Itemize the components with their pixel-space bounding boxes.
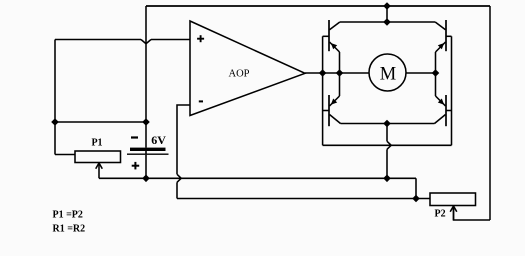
- op-amp minus input sign: [199, 100, 203, 102]
- wire battery plus run to bridge bottom: [146, 177, 416, 179]
- wire right base rail: [451, 36, 453, 145]
- wire motor right to right leg: [406, 72, 436, 74]
- battery B1 top plate (thick): [130, 148, 166, 151]
- wire feed into bridge: [386, 6, 388, 22]
- node dot right link: [142, 118, 150, 126]
- transistor Q4 (lower right): [435, 73, 452, 126]
- svg-text:P1 =P2: P1 =P2: [53, 210, 83, 221]
- battery B1 bottom plate (thin): [127, 153, 169, 155]
- node dot top feed: [383, 2, 391, 10]
- wire bridge bottom down to battery plus: [386, 149, 388, 178]
- svg-text:P1: P1: [91, 138, 102, 149]
- svg-text:AOP: AOP: [228, 69, 249, 80]
- wire bottom-right to P2 wiper: [454, 206, 491, 220]
- wire top supply: [146, 5, 490, 7]
- wire lower link left: [55, 121, 146, 123]
- wire op-amp + input: [55, 39, 141, 41]
- potentiometer P2 body: [430, 193, 476, 206]
- wire op-amp inverting input: [177, 105, 190, 174]
- wire P1 wiper to battery plus node: [99, 177, 146, 179]
- svg-text:M: M: [380, 65, 396, 85]
- wire feedback to P2 left terminal: [177, 198, 430, 200]
- wire left vertical from top to battery: [145, 6, 147, 148]
- wire bridge bottom internal: [341, 123, 435, 125]
- wire battery plus lead: [145, 155, 147, 179]
- node dot right motor leg: [432, 69, 440, 77]
- wire right border: [489, 6, 491, 220]
- node dot bridge bottom: [383, 120, 391, 128]
- wire hop V-dip at crossing: [141, 40, 151, 44]
- transistor Q3 (upper right): [435, 20, 451, 73]
- node dot output on left rail: [319, 69, 327, 77]
- svg-text:P2: P2: [435, 209, 446, 220]
- op-amp plus input sign: [197, 35, 204, 42]
- node dot left motor leg: [336, 69, 344, 77]
- wire hop chevron over battery-plus wire: [177, 174, 181, 182]
- wire bridge bottom down: [386, 124, 388, 142]
- potentiometer P2 wiper arrow: [450, 206, 457, 220]
- svg-text:R1 =R2: R1 =R2: [53, 224, 86, 235]
- transistor Q1 (upper left): [323, 20, 340, 73]
- op-amp U1 triangle: [190, 21, 305, 116]
- potentiometer P1 body: [75, 151, 121, 163]
- potentiometer P1 wiper arrow: [96, 163, 103, 178]
- wire left base rail: [322, 36, 324, 145]
- wire op-amp + input right part: [151, 39, 190, 41]
- node dot bridge-bottom to battery-plus: [383, 175, 391, 183]
- battery B1 6V minus sign: [131, 136, 138, 138]
- svg-text:6V: 6V: [151, 133, 166, 147]
- wire battery plus corner down: [415, 178, 417, 198]
- battery B1 plus sign: [132, 162, 140, 170]
- wire op-amp output to bridge: [305, 72, 369, 74]
- node dot left link: [51, 118, 59, 126]
- wire into P1 left terminal: [55, 154, 75, 156]
- motor M1 circle: [369, 54, 406, 91]
- wire bridge top internal: [340, 21, 435, 23]
- wire base cross link: [323, 144, 452, 146]
- transistor Q2 (lower left): [323, 73, 341, 126]
- node dot bridge top: [383, 18, 391, 26]
- wire hop chevron over base cross wire: [387, 141, 391, 149]
- node dot battery plus junction: [142, 175, 150, 183]
- wire inverting input down: [176, 182, 178, 198]
- wire left branch vertical: [54, 40, 56, 155]
- wire battery minus lead: [145, 151, 147, 154]
- node dot feedback junction: [412, 195, 420, 203]
